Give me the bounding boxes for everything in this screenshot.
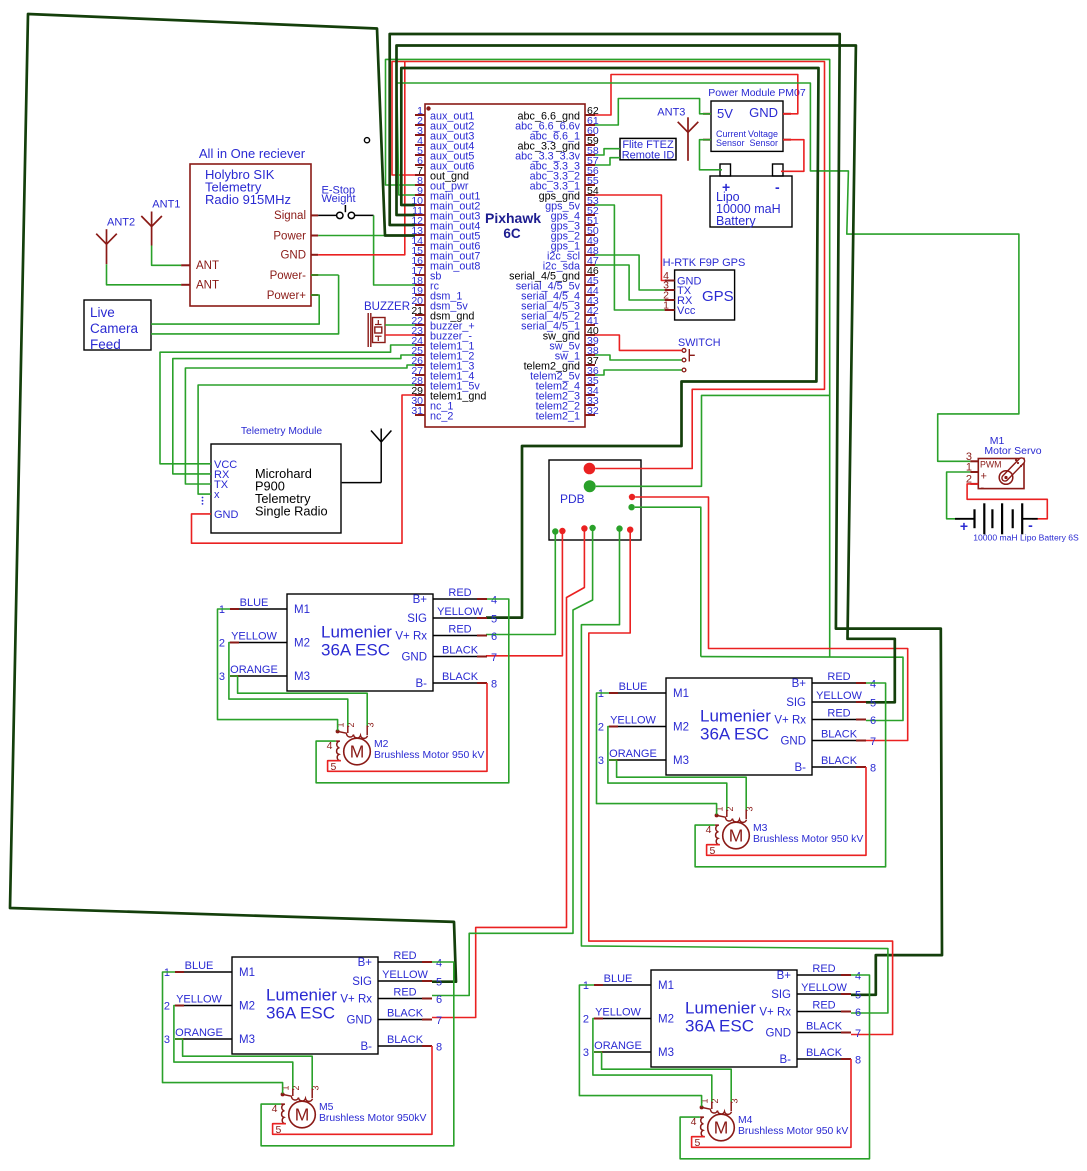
svg-text:M2: M2: [374, 739, 389, 750]
svg-text:8: 8: [855, 1055, 861, 1067]
svg-text:B+: B+: [792, 678, 807, 690]
svg-text:36A ESC: 36A ESC: [685, 1017, 754, 1036]
svg-text:SWITCH: SWITCH: [678, 337, 721, 349]
svg-text:M3: M3: [673, 755, 689, 767]
svg-text:ANT: ANT: [196, 280, 219, 292]
svg-text:4: 4: [491, 595, 497, 607]
svg-text:M2: M2: [658, 1014, 674, 1026]
svg-text:ANT3: ANT3: [657, 107, 685, 119]
svg-text:7: 7: [870, 736, 876, 748]
svg-text:3: 3: [583, 1047, 589, 1059]
svg-text:8: 8: [491, 679, 497, 691]
svg-text:V+ Rx: V+ Rx: [340, 994, 372, 1006]
svg-text:SIG: SIG: [771, 989, 791, 1001]
svg-text:M: M: [350, 742, 365, 762]
svg-text:M2: M2: [239, 1001, 255, 1013]
svg-text:Live: Live: [90, 305, 115, 320]
svg-text:B-: B-: [780, 1054, 792, 1066]
svg-text:Weight: Weight: [322, 193, 356, 205]
svg-text:36A ESC: 36A ESC: [266, 1004, 335, 1023]
svg-text:PWM: PWM: [980, 460, 1002, 470]
svg-text:M1: M1: [658, 980, 674, 992]
svg-text:SIG: SIG: [407, 613, 427, 625]
svg-text:BLACK: BLACK: [387, 1034, 424, 1046]
svg-text:M2: M2: [673, 722, 689, 734]
svg-text:PDB: PDB: [560, 492, 585, 506]
svg-text:M4: M4: [738, 1115, 753, 1126]
svg-text:32: 32: [587, 405, 599, 417]
svg-text:V+ Rx: V+ Rx: [759, 1007, 791, 1019]
svg-text:RED: RED: [812, 1000, 835, 1012]
svg-text:1: 1: [598, 688, 604, 700]
svg-text:Signal: Signal: [274, 210, 306, 222]
svg-text:RED: RED: [812, 963, 835, 975]
svg-text:M1: M1: [239, 967, 255, 979]
svg-text:Power Module PM07: Power Module PM07: [708, 87, 806, 99]
svg-text:B-: B-: [416, 678, 428, 690]
svg-text:Single Radio: Single Radio: [255, 504, 328, 519]
svg-text:8: 8: [870, 763, 876, 775]
svg-text:RED: RED: [448, 587, 471, 599]
svg-text:SIG: SIG: [786, 697, 806, 709]
svg-text:36A ESC: 36A ESC: [700, 725, 769, 744]
svg-text:B+: B+: [358, 957, 373, 969]
svg-text:6: 6: [870, 715, 876, 727]
svg-text:Motor Servo: Motor Servo: [984, 445, 1041, 457]
svg-text:RED: RED: [827, 671, 850, 683]
svg-text:RED: RED: [448, 624, 471, 636]
svg-text:5: 5: [855, 990, 861, 1002]
svg-text:YELLOW: YELLOW: [610, 715, 656, 727]
svg-text:BLUE: BLUE: [604, 973, 633, 985]
svg-text:BLUE: BLUE: [240, 597, 269, 609]
svg-text:H-RTK F9P GPS: H-RTK F9P GPS: [663, 257, 746, 269]
svg-text:GPS: GPS: [702, 288, 734, 305]
svg-text:Vcc: Vcc: [677, 305, 696, 317]
svg-text:ORANGE: ORANGE: [230, 664, 278, 676]
svg-text:RED: RED: [827, 708, 850, 720]
svg-text:Sensor: Sensor: [749, 138, 778, 148]
svg-text:6: 6: [436, 994, 442, 1006]
svg-text:V+ Rx: V+ Rx: [774, 715, 806, 727]
svg-text:-: -: [1028, 517, 1033, 533]
svg-text:GND: GND: [401, 652, 427, 664]
svg-text:ANT2: ANT2: [107, 217, 135, 229]
svg-text:6: 6: [491, 631, 497, 643]
svg-text:1: 1: [583, 980, 589, 992]
svg-text:YELLOW: YELLOW: [176, 994, 222, 1006]
svg-text:M: M: [295, 1105, 310, 1125]
svg-text:Lumenier: Lumenier: [266, 986, 337, 1005]
svg-text:GND: GND: [346, 1015, 372, 1027]
svg-text:4: 4: [870, 679, 876, 691]
svg-text:Camera: Camera: [90, 321, 139, 336]
svg-text:nc_2: nc_2: [430, 411, 453, 423]
svg-text:GND: GND: [780, 736, 806, 748]
svg-text:4: 4: [855, 971, 861, 983]
svg-text:Power: Power: [273, 230, 306, 242]
svg-text:36A ESC: 36A ESC: [321, 641, 390, 660]
svg-text:SIG: SIG: [352, 976, 372, 988]
svg-text:ORANGE: ORANGE: [175, 1027, 223, 1039]
svg-text:B-: B-: [361, 1041, 373, 1053]
svg-text:7: 7: [436, 1015, 442, 1027]
svg-text:1: 1: [164, 967, 170, 979]
svg-text:M3: M3: [294, 671, 310, 683]
svg-text:3: 3: [598, 755, 604, 767]
svg-text:M3: M3: [658, 1047, 674, 1059]
svg-text:31: 31: [411, 405, 423, 417]
svg-text:ORANGE: ORANGE: [609, 748, 657, 760]
svg-text:Lumenier: Lumenier: [685, 999, 756, 1018]
svg-text:Battery: Battery: [716, 214, 756, 228]
svg-text:Brushless Motor 950 kV: Brushless Motor 950 kV: [738, 1126, 848, 1137]
svg-text:BLACK: BLACK: [806, 1021, 843, 1033]
svg-text:YELLOW: YELLOW: [382, 969, 428, 981]
svg-text:5V: 5V: [717, 106, 733, 121]
svg-text:GND: GND: [214, 509, 239, 521]
svg-text:2: 2: [598, 722, 604, 734]
svg-text:Lumenier: Lumenier: [700, 707, 771, 726]
svg-text:3: 3: [219, 671, 225, 683]
svg-text:5: 5: [436, 977, 442, 989]
svg-text:YELLOW: YELLOW: [437, 606, 483, 618]
svg-text:M: M: [714, 1118, 729, 1138]
svg-text:3: 3: [164, 1034, 170, 1046]
svg-text:BLACK: BLACK: [821, 755, 858, 767]
svg-text:B+: B+: [777, 970, 792, 982]
svg-text:BLACK: BLACK: [387, 1008, 424, 1020]
svg-text:RED: RED: [393, 950, 416, 962]
svg-text:Power+: Power+: [267, 290, 307, 302]
svg-text:B-: B-: [795, 762, 807, 774]
svg-text:ANT1: ANT1: [152, 199, 180, 211]
svg-text:8: 8: [436, 1042, 442, 1054]
svg-text:YELLOW: YELLOW: [816, 690, 862, 702]
svg-text:6C: 6C: [503, 226, 521, 241]
svg-text:Brushless Motor 950 kV: Brushless Motor 950 kV: [753, 834, 863, 845]
svg-text:2: 2: [164, 1001, 170, 1013]
svg-text:6: 6: [855, 1007, 861, 1019]
svg-text:x: x: [214, 489, 220, 501]
svg-text:7: 7: [855, 1028, 861, 1040]
svg-text:telem2_1: telem2_1: [536, 411, 580, 423]
svg-text:2: 2: [219, 638, 225, 650]
svg-text:BLACK: BLACK: [821, 729, 858, 741]
svg-text:M3: M3: [239, 1034, 255, 1046]
svg-text:2: 2: [583, 1014, 589, 1026]
svg-text:V+ Rx: V+ Rx: [395, 631, 427, 643]
svg-text:BLACK: BLACK: [442, 645, 479, 657]
svg-text:Sensor: Sensor: [716, 138, 745, 148]
svg-text:GND: GND: [749, 105, 778, 120]
svg-text:Remote ID: Remote ID: [622, 150, 675, 162]
svg-text:+: +: [981, 471, 987, 483]
svg-text:BUZZER: BUZZER: [364, 301, 410, 313]
svg-text:YELLOW: YELLOW: [231, 631, 277, 643]
svg-text:M: M: [729, 826, 744, 846]
svg-text:All in One reciever: All in One reciever: [199, 146, 306, 161]
svg-text:BLACK: BLACK: [806, 1047, 843, 1059]
svg-text:Radio 915MHz: Radio 915MHz: [205, 192, 291, 207]
svg-text:Power-: Power-: [270, 270, 307, 282]
svg-text:Brushless Motor 950 kV: Brushless Motor 950 kV: [374, 750, 484, 761]
svg-text:M5: M5: [319, 1102, 334, 1113]
svg-text:M2: M2: [294, 638, 310, 650]
svg-text:Pixhawk: Pixhawk: [485, 210, 541, 226]
svg-text:Brushless Motor 950kV: Brushless Motor 950kV: [319, 1113, 426, 1124]
svg-text:-: -: [775, 179, 780, 195]
svg-text:RED: RED: [393, 987, 416, 999]
svg-text:ANT: ANT: [196, 260, 219, 272]
svg-text:+: +: [960, 518, 968, 534]
svg-text:BLACK: BLACK: [442, 671, 479, 683]
svg-text:M1: M1: [673, 688, 689, 700]
svg-text:B+: B+: [413, 594, 428, 606]
svg-text:5: 5: [870, 698, 876, 710]
svg-text:10000 maH Lipo Battery 6S: 10000 maH Lipo Battery 6S: [973, 533, 1079, 543]
svg-text:GND: GND: [765, 1028, 791, 1040]
svg-text:1: 1: [219, 604, 225, 616]
svg-text:-: -: [981, 482, 985, 494]
svg-text:YELLOW: YELLOW: [595, 1007, 641, 1019]
svg-text:BLUE: BLUE: [619, 681, 648, 693]
svg-text:Telemetry Module: Telemetry Module: [241, 426, 323, 437]
svg-text:BLUE: BLUE: [185, 960, 214, 972]
svg-text:GND: GND: [280, 250, 306, 262]
svg-text:Feed: Feed: [90, 337, 121, 352]
svg-text:7: 7: [491, 652, 497, 664]
svg-text:Lumenier: Lumenier: [321, 623, 392, 642]
svg-text:ORANGE: ORANGE: [594, 1040, 642, 1052]
svg-text:M1: M1: [294, 604, 310, 616]
svg-text:5: 5: [491, 614, 497, 626]
svg-text:4: 4: [436, 958, 442, 970]
svg-text:YELLOW: YELLOW: [801, 982, 847, 994]
svg-text:M3: M3: [753, 823, 768, 834]
